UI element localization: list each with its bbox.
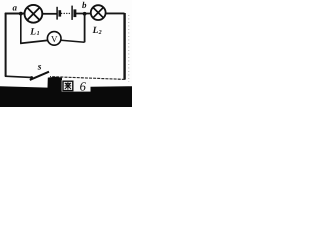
wire bottom right segment [50, 77, 125, 80]
wire voltmeter branch right horizontal [61, 40, 85, 42]
svg-text:L: L [29, 27, 36, 37]
wire bottom left segment [5, 76, 31, 77]
battery B [57, 6, 75, 20]
voltmeter V [47, 32, 61, 46]
node a [19, 12, 23, 16]
wire voltmeter branch left horizontal [20, 40, 47, 43]
svg-text:L: L [92, 26, 99, 36]
wire top segment L2 to right corner [105, 12, 125, 14]
svg-text:s: s [37, 63, 42, 73]
svg-text:1: 1 [37, 31, 40, 37]
wire right vertical [123, 13, 125, 80]
caption tu glyph strokes [65, 82, 72, 89]
wire top segment L1 to battery [43, 13, 58, 15]
svg-text:V: V [51, 34, 58, 44]
wire left vertical [5, 13, 7, 76]
switch S [30, 63, 49, 80]
figure caption box [62, 80, 91, 92]
svg-text:b: b [82, 0, 87, 10]
svg-text:2: 2 [98, 30, 102, 36]
wire voltmeter branch right vertical [84, 14, 86, 43]
wire top segment battery to L2 [75, 13, 91, 15]
wire top segment a to L1 [5, 13, 25, 15]
wire voltmeter branch left vertical [20, 14, 22, 44]
svg-text:a: a [13, 3, 18, 13]
lamp L2 [91, 5, 106, 20]
scan noise speckle column right edge [128, 15, 130, 82]
lamp L1 [25, 5, 43, 23]
node b [83, 12, 87, 16]
svg-text:6: 6 [80, 80, 87, 94]
caption frame around tu character [63, 81, 73, 90]
scan black bar bottom [0, 77, 132, 107]
